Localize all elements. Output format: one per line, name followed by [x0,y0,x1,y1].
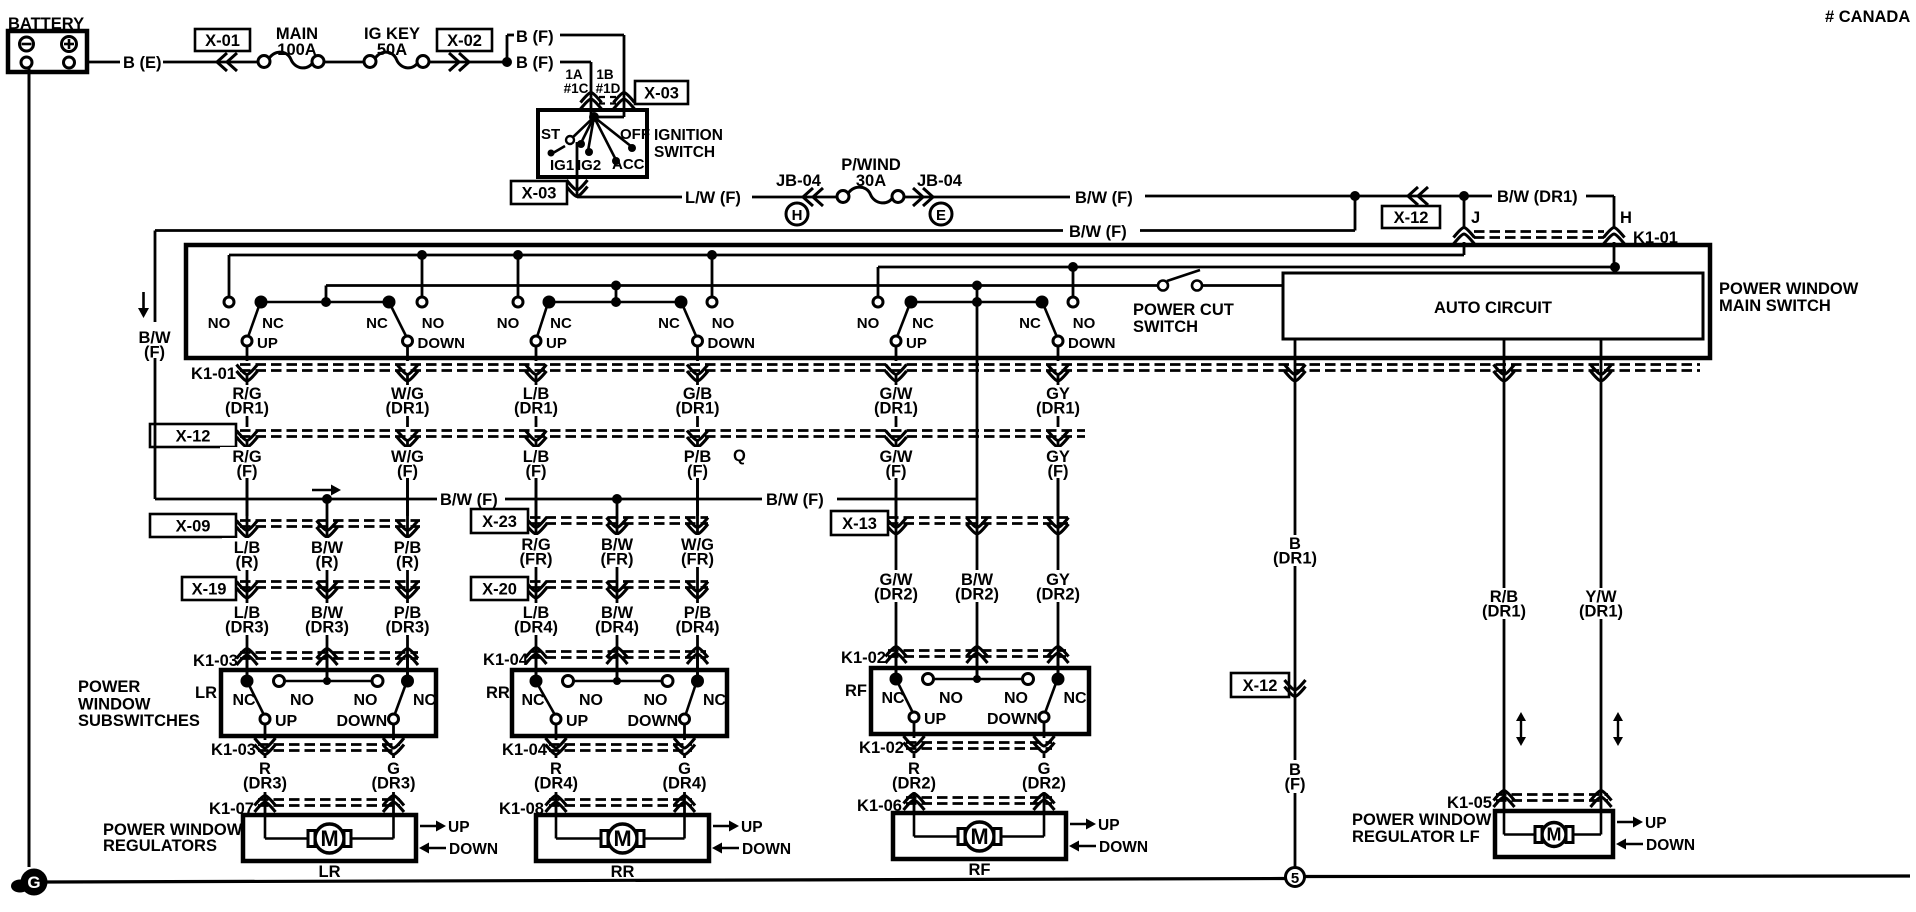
svg-text:B (F): B (F) [516,54,554,72]
svg-text:B/W (F): B/W (F) [1069,223,1127,241]
svg-text:(DR3): (DR3) [305,619,349,637]
svg-text:SWITCH: SWITCH [654,144,715,161]
svg-text:NC: NC [366,315,388,332]
svg-text:(R): (R) [316,554,339,572]
svg-text:NO: NO [644,692,668,709]
svg-text:(DR4): (DR4) [534,775,578,793]
svg-text:NC: NC [658,315,680,332]
svg-text:NO: NO [208,315,231,332]
svg-text:X-12: X-12 [1243,677,1278,695]
svg-text:K1-05: K1-05 [1447,794,1492,812]
svg-text:NO: NO [712,315,735,332]
svg-text:(R): (R) [236,554,259,572]
svg-text:K1-04: K1-04 [483,651,529,669]
svg-text:NO: NO [1004,690,1028,707]
svg-text:(F): (F) [1047,463,1068,481]
svg-text:NO: NO [497,315,520,332]
svg-text:SUBSWITCHES: SUBSWITCHES [78,712,200,730]
svg-text:K1-03: K1-03 [211,741,256,759]
svg-text:MAIN SWITCH: MAIN SWITCH [1719,297,1831,315]
svg-text:(DR2): (DR2) [1022,775,1066,793]
svg-text:(DR3): (DR3) [386,619,430,637]
svg-text:(F): (F) [1284,776,1305,794]
svg-text:1A: 1A [565,67,583,82]
svg-text:DOWN: DOWN [449,841,498,858]
svg-text:OFF: OFF [620,126,650,143]
svg-text:X-09: X-09 [176,518,211,536]
svg-text:#1C: #1C [564,81,589,96]
svg-text:DOWN: DOWN [1068,335,1116,352]
svg-text:AUTO CIRCUIT: AUTO CIRCUIT [1434,299,1552,317]
svg-text:NC: NC [1019,315,1041,332]
svg-text:POWER CUT: POWER CUT [1133,301,1234,319]
svg-text:DOWN: DOWN [987,711,1038,728]
svg-text:(DR2): (DR2) [955,586,999,604]
svg-text:B/W (DR1): B/W (DR1) [1497,188,1578,206]
svg-text:ST: ST [541,126,560,143]
svg-text:NO: NO [1073,315,1096,332]
svg-text:G: G [27,873,40,892]
svg-text:REGULATORS: REGULATORS [103,837,217,855]
svg-text:ACC: ACC [612,156,645,173]
svg-text:M: M [613,826,631,851]
svg-text:#1D: #1D [596,81,621,96]
svg-text:UP: UP [906,335,927,352]
svg-text:L/W (F): L/W (F) [685,189,741,207]
svg-text:NO: NO [579,692,603,709]
svg-text:K1-02: K1-02 [841,649,886,667]
svg-text:X-03: X-03 [522,185,557,203]
svg-text:IG2: IG2 [577,157,601,174]
svg-text:UP: UP [257,335,278,352]
svg-text:POWER WINDOW: POWER WINDOW [1719,280,1859,298]
svg-text:(DR2): (DR2) [892,775,936,793]
svg-text:POWER: POWER [78,678,140,696]
svg-text:X-02: X-02 [447,32,482,50]
svg-text:NC: NC [912,315,934,332]
svg-text:UP: UP [275,713,298,730]
svg-text:UP: UP [741,819,763,836]
svg-text:SWITCH: SWITCH [1133,318,1198,336]
svg-text:X-13: X-13 [842,515,877,533]
svg-text:NC: NC [262,315,284,332]
svg-text:B/W (F): B/W (F) [766,491,824,509]
svg-text:NC: NC [232,692,256,709]
svg-text:M: M [970,824,988,849]
svg-text:NC: NC [703,692,727,709]
svg-text:5: 5 [1291,870,1299,887]
svg-text:X-12: X-12 [1394,209,1429,227]
svg-text:NO: NO [290,692,314,709]
svg-text:(DR1): (DR1) [874,400,918,418]
svg-text:NC: NC [550,315,572,332]
svg-text:H: H [792,207,803,224]
svg-text:E: E [936,207,946,224]
svg-text:50A: 50A [377,41,407,59]
svg-text:(FR): (FR) [601,551,634,569]
svg-text:(F): (F) [687,463,708,481]
svg-text:POWER WINDOW: POWER WINDOW [1352,811,1492,829]
svg-text:NC: NC [413,692,437,709]
svg-text:Q: Q [733,447,746,465]
svg-text:# CANADA: # CANADA [1825,8,1910,26]
svg-text:B/W (F): B/W (F) [440,491,498,509]
svg-text:NC: NC [521,692,545,709]
svg-text:B (F): B (F) [516,28,554,46]
svg-text:NO: NO [939,690,963,707]
svg-text:RR: RR [611,863,635,881]
svg-text:(DR1): (DR1) [1482,603,1526,621]
svg-text:1B: 1B [596,67,614,82]
svg-text:DOWN: DOWN [1646,837,1695,854]
svg-text:(DR1): (DR1) [1273,550,1317,568]
svg-text:K1-01: K1-01 [191,365,236,383]
svg-text:DOWN: DOWN [742,841,791,858]
svg-text:DOWN: DOWN [628,713,679,730]
svg-text:B (E): B (E) [123,54,162,72]
svg-text:WINDOW: WINDOW [78,696,151,714]
svg-text:(DR1): (DR1) [1036,400,1080,418]
svg-text:X-23: X-23 [482,513,517,531]
svg-text:(F): (F) [236,463,257,481]
svg-text:100A: 100A [277,41,317,59]
svg-text:REGULATOR LF: REGULATOR LF [1352,828,1480,846]
svg-text:NC: NC [881,690,905,707]
svg-text:(FR): (FR) [681,551,714,569]
svg-text:(DR1): (DR1) [676,400,720,418]
svg-text:LR: LR [195,684,217,702]
svg-text:(DR4): (DR4) [663,775,707,793]
svg-text:K1-04: K1-04 [502,741,548,759]
svg-text:(DR4): (DR4) [595,619,639,637]
svg-text:(F): (F) [885,463,906,481]
svg-text:M: M [1547,825,1562,845]
svg-text:X-03: X-03 [644,85,679,103]
svg-text:J: J [1471,209,1480,227]
svg-text:UP: UP [546,335,567,352]
svg-text:LR: LR [319,863,341,881]
svg-text:NO: NO [354,692,378,709]
svg-text:B/W (F): B/W (F) [1075,189,1133,207]
svg-text:(F): (F) [144,344,165,362]
svg-text:(F): (F) [525,463,546,481]
svg-text:IG1: IG1 [550,157,574,174]
svg-text:NO: NO [422,315,445,332]
svg-text:(F): (F) [397,463,418,481]
svg-text:(DR1): (DR1) [514,400,558,418]
svg-text:(R): (R) [396,554,419,572]
svg-text:(DR3): (DR3) [225,619,269,637]
svg-text:X-12: X-12 [176,428,211,446]
svg-text:RF: RF [969,861,991,879]
svg-text:UP: UP [924,711,947,728]
svg-text:(DR1): (DR1) [1579,603,1623,621]
svg-text:K1-02: K1-02 [859,739,904,757]
svg-text:K1-03: K1-03 [193,652,238,670]
svg-text:(DR3): (DR3) [372,775,416,793]
svg-text:X-19: X-19 [192,581,227,599]
svg-text:JB-04: JB-04 [776,172,822,190]
svg-text:DOWN: DOWN [337,713,388,730]
svg-text:IGNITION: IGNITION [654,127,723,144]
svg-text:UP: UP [566,713,589,730]
svg-text:NO: NO [857,315,880,332]
svg-text:RR: RR [486,684,510,702]
svg-text:UP: UP [1645,815,1667,832]
svg-text:NC: NC [1063,690,1087,707]
svg-text:UP: UP [448,819,470,836]
svg-text:(DR3): (DR3) [243,775,287,793]
svg-text:DOWN: DOWN [418,335,466,352]
svg-text:(DR2): (DR2) [874,586,918,604]
svg-text:(DR4): (DR4) [676,619,720,637]
svg-text:DOWN: DOWN [708,335,756,352]
svg-text:(DR1): (DR1) [386,400,430,418]
svg-text:RF: RF [845,682,867,700]
svg-text:DOWN: DOWN [1099,839,1148,856]
svg-text:(DR4): (DR4) [514,619,558,637]
svg-text:(FR): (FR) [520,551,553,569]
svg-text:(DR1): (DR1) [225,400,269,418]
svg-text:UP: UP [1098,817,1120,834]
svg-text:30A: 30A [856,172,886,190]
svg-text:(DR2): (DR2) [1036,586,1080,604]
svg-text:X-20: X-20 [482,581,517,599]
svg-text:H: H [1620,209,1632,227]
svg-text:X-01: X-01 [205,32,240,50]
svg-text:M: M [320,826,338,851]
